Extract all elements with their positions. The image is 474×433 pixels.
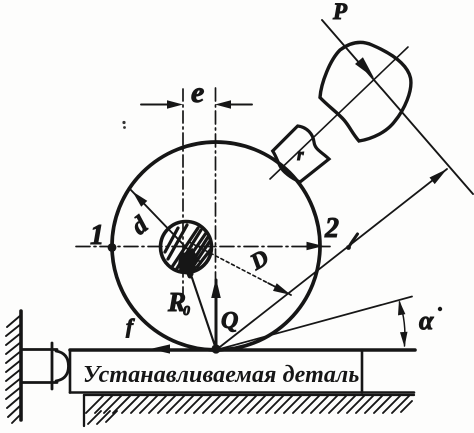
plunger body with dome head [320,42,411,141]
label R0 [167,287,190,319]
svg-text:0: 0 [183,304,190,319]
label D [245,245,273,276]
svg-text:Q: Q [221,308,238,334]
plate label text [83,362,359,388]
angle alpha arc with arrows [398,300,408,347]
label d [127,211,154,240]
base top line and left edge [84,395,414,426]
label 1 [90,220,104,251]
plunger axis line [270,47,408,179]
contact point dot [211,344,220,353]
label P [332,0,348,24]
left wall line [19,311,23,420]
svg-text:Устанавливаемая деталь: Устанавливаемая деталь [83,362,359,388]
left wall hatching [6,315,21,423]
svg-text:1: 1 [90,220,104,251]
label 2 [324,213,339,244]
plunger rod piece (broken) [273,126,329,182]
force P line [322,20,473,194]
label alpha [419,306,442,335]
angle line (alpha) [216,297,412,351]
arrow on centerline at node 2 [307,242,324,250]
label f [126,314,135,338]
svg-text:r: r [297,145,304,164]
label Q [221,308,238,334]
dimension e arrows and lines [141,100,252,108]
base hatching [86,396,412,424]
svg-text:P: P [332,0,348,24]
svg-text:f: f [126,314,135,338]
svg-text:D: D [245,245,273,276]
lever arm l line with arrow [216,169,447,350]
dimension d line with arrows [129,188,201,263]
node 1 dot [108,243,117,252]
stop pin body [21,343,69,389]
force Q arrow (vertical) [211,278,221,348]
svg-text:2: 2 [324,213,339,244]
workpiece plate outline [70,350,415,393]
horizontal centerline [76,246,330,248]
svg-text:α: α [419,306,434,335]
disc (large circle) [112,142,320,350]
stray scan speck [122,121,126,129]
svg-text:d: d [127,211,154,240]
disc vertical centerline [215,88,217,349]
hole (hatched) [161,222,212,277]
svg-text:e: e [191,76,204,109]
friction f arrowhead on plate edge [150,344,170,353]
hole vertical centerline [182,89,184,302]
label e [191,76,204,109]
dimension D line (dotted) with arrow [189,242,291,295]
R0 radius line with arrow [184,255,216,349]
label l [346,234,357,250]
